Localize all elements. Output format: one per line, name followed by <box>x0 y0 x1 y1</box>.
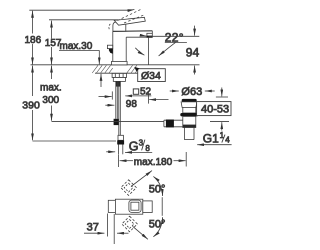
lower arc <box>153 217 162 237</box>
svg-text:4: 4 <box>225 136 230 145</box>
handle base cap <box>113 22 126 31</box>
drain outlet <box>164 119 183 121</box>
label square 52 <box>133 89 138 94</box>
plan body <box>115 199 142 214</box>
under-deck nut 2 <box>113 78 125 82</box>
hose A fitting <box>114 119 119 125</box>
svg-text:max.: max. <box>40 83 62 94</box>
hose A <box>115 81 117 118</box>
deck hatch left <box>92 65 113 73</box>
side knob <box>107 45 112 48</box>
upper arc <box>153 176 162 196</box>
handle lever <box>114 17 145 25</box>
drain tailpipe <box>183 128 185 140</box>
deck bottom line <box>95 72 137 74</box>
dimension Ø63 <box>170 90 179 92</box>
svg-text:max.180: max.180 <box>134 157 173 168</box>
under-deck nut 1 <box>112 73 126 77</box>
hose B end <box>118 135 123 140</box>
svg-text:37: 37 <box>87 221 99 233</box>
hose length ref line <box>52 120 164 122</box>
rod axis extension <box>118 155 120 168</box>
svg-text:Ø34: Ø34 <box>141 70 161 82</box>
dimension 186 <box>32 11 34 34</box>
rod end ref line <box>33 140 117 142</box>
svg-text:300: 300 <box>42 95 59 106</box>
hose B <box>118 81 120 135</box>
lower lever diagonal <box>133 226 148 239</box>
drain flange <box>181 102 197 108</box>
drain plug <box>182 99 197 102</box>
swivel tick <box>161 197 163 216</box>
dimension 94 <box>194 26 196 36</box>
svg-text:390: 390 <box>22 99 40 111</box>
max.30 lower arrow <box>100 74 102 87</box>
plan cube <box>129 200 141 212</box>
dimension max.300 <box>51 66 53 79</box>
ref line top (raised lever height) <box>29 9 131 11</box>
plan view spout tip <box>108 200 115 212</box>
label Ø34 box <box>138 69 166 82</box>
svg-text:8: 8 <box>145 144 150 153</box>
arrow to raised lever tip <box>128 10 134 11</box>
svg-text:40-53: 40-53 <box>201 103 229 115</box>
shank stub <box>116 81 121 86</box>
svg-text:50°: 50° <box>149 219 166 231</box>
svg-text:186: 186 <box>25 35 42 46</box>
dimension 40-53 <box>221 88 223 97</box>
nipple left arrow <box>106 151 115 153</box>
drain neck <box>183 107 196 113</box>
lower diamond <box>122 216 138 232</box>
dimension 157 <box>51 21 53 39</box>
spout underside <box>126 36 147 38</box>
upper diamond <box>121 180 137 196</box>
raised lever dashed <box>118 9 142 20</box>
stream line <box>148 37 150 64</box>
deck top line <box>31 64 200 66</box>
arrow at hoses <box>105 104 114 106</box>
svg-text:G: G <box>129 140 139 154</box>
handle pivot dashed arc <box>109 24 110 30</box>
upper lever diagonal <box>131 171 152 187</box>
dimension max.180 <box>120 160 133 162</box>
G3/8 nipple <box>118 145 120 155</box>
aerator plane line <box>149 35 200 37</box>
drain bottom nut <box>183 125 196 128</box>
svg-text:50°: 50° <box>149 183 166 195</box>
deck hatch right <box>127 65 138 73</box>
ref line lever height <box>49 19 119 21</box>
svg-text:98: 98 <box>126 99 138 110</box>
drain o-ring <box>180 113 198 116</box>
svg-text:Ø63: Ø63 <box>181 86 202 98</box>
spout top <box>113 30 153 33</box>
svg-text:94: 94 <box>186 46 200 60</box>
faucet body <box>112 31 114 61</box>
plan cube inner <box>131 202 139 210</box>
svg-text:G1: G1 <box>203 132 219 146</box>
plan aerator <box>115 202 121 210</box>
faucet base <box>111 62 127 65</box>
angle arc <box>135 48 144 55</box>
dimension 98 <box>111 91 113 99</box>
plan lever <box>143 201 152 213</box>
spout tip <box>151 31 153 34</box>
drain body <box>183 116 196 127</box>
aerator arrow <box>140 35 147 36</box>
dimension 390 <box>32 66 34 96</box>
aerator <box>147 33 152 37</box>
